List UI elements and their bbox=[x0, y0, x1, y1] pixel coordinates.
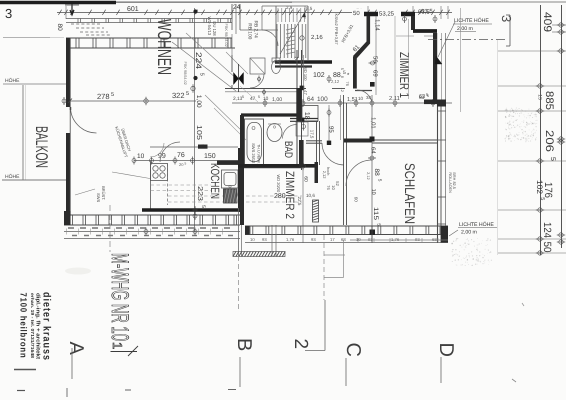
svg-text:7100 heilbronn: 7100 heilbronn bbox=[19, 293, 29, 359]
south wall band lines bbox=[64, 214, 240, 216]
svg-text:LICHTE HÖHE: LICHTE HÖHE bbox=[459, 221, 494, 228]
right chain nodes inner bbox=[538, 84, 542, 88]
balcony bottom edge bbox=[2, 179, 66, 181]
svg-text:76: 76 bbox=[345, 81, 350, 86]
label 50 on wall bbox=[352, 9, 364, 16]
stray mark right middle bbox=[522, 303, 524, 306]
kitchen entry door arc bbox=[160, 142, 180, 162]
terrace east verticals bbox=[271, 225, 273, 256]
svg-text:17: 17 bbox=[330, 237, 335, 242]
svg-text:BRÜST.: BRÜST. bbox=[101, 186, 106, 200]
WOHNEN north wall inner bbox=[66, 47, 235, 49]
dim row y242 bbox=[245, 242, 448, 244]
svg-text:1,00: 1,00 bbox=[272, 97, 282, 103]
tiny node wc 2 bbox=[263, 91, 266, 94]
node x302 y62 bbox=[300, 60, 304, 64]
title block base line bbox=[14, 369, 36, 371]
section bowtie marker bbox=[234, 73, 239, 85]
svg-text:88: 88 bbox=[373, 168, 380, 176]
faint smudge left bbox=[65, 268, 91, 275]
svg-text:WD 100: WD 100 bbox=[303, 66, 308, 81]
svg-text:10,6: 10,6 bbox=[306, 193, 315, 198]
leader diagonal 2 bbox=[186, 33, 238, 80]
grid line below D bbox=[440, 357, 442, 383]
svg-text:BRH 82,5: BRH 82,5 bbox=[452, 172, 456, 188]
zimmer1 south wall thick bbox=[344, 139, 372, 143]
zimmer2 NE door arc bbox=[322, 143, 344, 165]
zimmer1 north wall thick bbox=[364, 12, 415, 16]
svg-text:1,14: 1,14 bbox=[374, 19, 381, 31]
bracket end bbox=[509, 15, 511, 46]
svg-text:24: 24 bbox=[233, 4, 241, 11]
svg-text:RB 100: RB 100 bbox=[246, 23, 252, 39]
filled node x372 y232 bbox=[370, 230, 376, 236]
svg-text:409: 409 bbox=[541, 12, 553, 32]
stair top line bbox=[262, 5, 308, 7]
bath west wall thick bbox=[240, 115, 244, 168]
svg-text:1,00: 1,00 bbox=[195, 95, 202, 108]
svg-text:22,5: 22,5 bbox=[297, 197, 302, 206]
svg-text:12: 12 bbox=[340, 88, 344, 92]
svg-text:FBK 98/64.02: FBK 98/64.02 bbox=[224, 24, 228, 47]
svg-text:10: 10 bbox=[358, 96, 364, 101]
left margin tick line bbox=[3, 37, 50, 39]
kitchen counter edges bbox=[150, 161, 152, 210]
svg-text:5: 5 bbox=[198, 73, 204, 76]
WC west wall bbox=[231, 55, 233, 72]
svg-text:1,76: 1,76 bbox=[391, 237, 400, 242]
svg-text:5: 5 bbox=[539, 197, 545, 200]
svg-text:5: 5 bbox=[340, 68, 344, 70]
south wall band zimmer2 schlafen bbox=[245, 225, 448, 227]
sheet top border line bbox=[0, 1, 566, 3]
svg-text:2,12: 2,12 bbox=[331, 79, 340, 84]
stove box bbox=[151, 164, 168, 181]
staircase treads lower flight bbox=[276, 24, 278, 58]
balcony top edge bbox=[3, 83, 66, 85]
svg-text:20: 20 bbox=[179, 162, 184, 167]
shaft box corridor with dim 18 bbox=[302, 106, 318, 122]
dark seg south west zimmer2 bbox=[245, 226, 250, 235]
svg-text:76: 76 bbox=[326, 185, 331, 190]
dim chain line y101 bbox=[70, 100, 196, 102]
filled node x195 y11 bbox=[193, 9, 197, 13]
plumbing wall dark segment x315 bbox=[315, 162, 319, 183]
svg-text:1,51: 1,51 bbox=[347, 97, 358, 103]
bath east wall dark segment bbox=[296, 88, 301, 122]
svg-text:HÖHE: HÖHE bbox=[5, 77, 20, 84]
ticks on top chain bbox=[58, 10, 61, 15]
svg-text:80: 80 bbox=[56, 23, 63, 31]
vertical dim line x303 zimmer2 bbox=[302, 168, 304, 243]
node corridor x356 bbox=[354, 101, 358, 105]
vertical dim line x372 bbox=[371, 95, 373, 240]
bath north wall thick bbox=[241, 113, 301, 116]
vertical dim x329 with 95 bbox=[328, 105, 330, 143]
svg-text:5: 5 bbox=[111, 92, 114, 98]
bath bottom wall bbox=[244, 167, 302, 169]
corridor wall seg y118-121 bbox=[290, 118, 318, 120]
svg-text:69: 69 bbox=[372, 70, 379, 77]
south wall ticks bbox=[69, 215, 71, 225]
zimmer2 west wall thick bbox=[240, 168, 244, 225]
tiny numbers row2 bbox=[72, 235, 77, 237]
svg-text:601: 601 bbox=[127, 6, 139, 13]
stove burners bbox=[153, 166, 158, 171]
svg-text:A: A bbox=[65, 342, 87, 356]
svg-text:102: 102 bbox=[535, 180, 544, 195]
svg-text:64: 64 bbox=[370, 147, 377, 154]
svg-text:3: 3 bbox=[499, 15, 514, 22]
zimmer1 west wall lower bbox=[353, 57, 357, 89]
svg-text:885: 885 bbox=[543, 91, 555, 110]
svg-text:HÖHE: HÖHE bbox=[5, 173, 20, 180]
svg-text:102: 102 bbox=[313, 72, 325, 79]
leader diagonal 4 bbox=[214, 108, 246, 140]
svg-text:68: 68 bbox=[432, 237, 437, 242]
svg-text:2,00 m: 2,00 m bbox=[457, 26, 473, 32]
node x372 y63 bbox=[371, 61, 375, 65]
svg-text:93: 93 bbox=[262, 237, 267, 242]
filled node x372 y139 bbox=[370, 137, 375, 142]
svg-text:63,5: 63,5 bbox=[418, 9, 430, 16]
WC bowl bbox=[272, 61, 281, 74]
bottom fold marks bbox=[17, 390, 25, 392]
node corridor x433 bbox=[431, 101, 435, 105]
svg-text:47: 47 bbox=[303, 90, 308, 95]
bathtub outer bbox=[245, 119, 264, 165]
nodes dim rows bbox=[144, 230, 148, 234]
node x64 y101 bbox=[62, 99, 66, 103]
stray mark bottom right bbox=[512, 379, 516, 382]
zimmer1 chamfer wall bbox=[353, 42, 370, 59]
svg-text:WD 20/20: WD 20/20 bbox=[276, 174, 281, 193]
schlafen door arc bbox=[346, 160, 372, 186]
zimmer2 north wall thick bbox=[238, 164, 318, 168]
svg-text:KOCHEN: KOCHEN bbox=[208, 163, 222, 199]
svg-text:D: D bbox=[435, 343, 457, 357]
svg-text:5: 5 bbox=[200, 205, 206, 208]
svg-text:M-WHG NR 10: M-WHG NR 10 bbox=[106, 253, 133, 341]
svg-text:erhan. 19 - tel. 07131/71648: erhan. 19 - tel. 07131/71648 bbox=[30, 293, 35, 359]
leader diagonal 3 bbox=[205, 95, 244, 133]
right chain inner vertical x540 bbox=[540, 5, 542, 255]
node corridor x303 bbox=[301, 101, 305, 105]
wash basin bbox=[267, 124, 282, 142]
zimmer1 door sill bbox=[355, 90, 372, 92]
door arc into WC bbox=[250, 74, 264, 88]
bath east wall double bbox=[296, 50, 298, 168]
svg-text:64: 64 bbox=[307, 96, 315, 103]
extension to chain x497 bbox=[497, 40, 499, 255]
west wall inner face bbox=[69, 38, 71, 215]
west exterior wall upper bbox=[66, 38, 70, 107]
leader diagonal 1 bbox=[172, 42, 236, 91]
svg-text:56: 56 bbox=[372, 56, 379, 63]
node corridor x340 bbox=[338, 101, 342, 105]
node x329 y79 bbox=[327, 77, 331, 81]
dashed lines top-left bbox=[71, 23, 100, 25]
fridge dark hatched bbox=[224, 189, 238, 203]
svg-text:SCHLAFEN: SCHLAFEN bbox=[402, 163, 418, 224]
svg-text:WD 54/13: WD 54/13 bbox=[207, 17, 212, 36]
svg-text:TH.U.VERK: TH.U.VERK bbox=[256, 144, 260, 164]
svg-text:278: 278 bbox=[97, 92, 110, 101]
corridor north wall lines bbox=[225, 88, 306, 90]
node x303.5 y126.5 bbox=[302, 125, 306, 129]
svg-text:hoch: hoch bbox=[326, 167, 330, 175]
black arrow on wall bbox=[435, 56, 442, 64]
svg-text:DU 128: DU 128 bbox=[212, 21, 217, 36]
nodes top dim y19 bbox=[403, 17, 407, 21]
svg-text:KSVo2 FFB+3,87: KSVo2 FFB+3,87 bbox=[334, 14, 339, 46]
WOHNEN north wall outer bbox=[66, 37, 232, 39]
right chain outer vertical x561 bbox=[561, 5, 563, 248]
hall east wall x343 bbox=[343, 95, 345, 225]
kitchen nodes bbox=[132, 159, 136, 163]
svg-text:93: 93 bbox=[368, 237, 373, 242]
grid 2 bracket bbox=[324, 300, 326, 351]
staircase treads upper flight bbox=[277, 8, 279, 22]
east wall window ticks bbox=[437, 110, 446, 112]
svg-text:206: 206 bbox=[543, 130, 555, 152]
node x193 y88 bbox=[191, 86, 195, 90]
label 53,25 gap on wall bbox=[378, 10, 401, 17]
small box below shaft bbox=[296, 122, 308, 136]
dashed vertical x238 below bbox=[238, 256, 240, 310]
west exterior wall lower bbox=[66, 133, 70, 215]
svg-text:1,76: 1,76 bbox=[286, 237, 295, 242]
svg-text:50: 50 bbox=[353, 10, 360, 17]
svg-text:WOHNEN: WOHNEN bbox=[153, 19, 174, 75]
dark seg above kitchen bbox=[198, 145, 208, 149]
node corridor x395 bbox=[393, 101, 397, 105]
top dimension chain line bbox=[57, 12, 452, 14]
vertical dim x303 bbox=[303, 55, 305, 103]
kitchen east wall dark bbox=[238, 148, 242, 212]
stair bottom wall thick bbox=[275, 60, 332, 64]
zimmer1 south wall dark seg bbox=[424, 100, 437, 105]
kitchen dim chain y160 bbox=[134, 160, 240, 162]
east wall dark corner bbox=[437, 100, 446, 107]
kitchen entry door arc 2 bbox=[150, 143, 164, 157]
stair node circle bbox=[300, 36, 304, 40]
svg-text:124: 124 bbox=[541, 222, 553, 238]
kitchen top line bbox=[150, 146, 238, 148]
shower square bbox=[250, 58, 265, 74]
svg-text:93: 93 bbox=[311, 237, 316, 242]
svg-text:10: 10 bbox=[263, 96, 269, 102]
extra leader diagonal wc 2 bbox=[240, 86, 258, 102]
svg-text:53,25: 53,25 bbox=[379, 11, 395, 18]
smudge cluster lower bbox=[456, 237, 459, 240]
svg-text:63: 63 bbox=[419, 94, 425, 100]
filled node x372 y84 bbox=[370, 82, 375, 87]
down arrow marker bbox=[70, 4, 74, 15]
svg-text:5: 5 bbox=[186, 91, 189, 97]
extension line x460 bbox=[460, 8, 462, 112]
neighbour door arc bbox=[262, 30, 278, 46]
schlafen east wall lines bbox=[441, 33, 443, 103]
svg-text:100: 100 bbox=[317, 96, 328, 103]
zimmer1 shelf line bbox=[396, 35, 414, 37]
dashed line above M-WHG bbox=[109, 205, 111, 252]
node corridor x372 bbox=[370, 101, 374, 105]
svg-text:5: 5 bbox=[185, 162, 187, 166]
svg-text:52: 52 bbox=[335, 181, 340, 186]
svg-text:88: 88 bbox=[333, 72, 341, 79]
svg-text:BAD: BAD bbox=[282, 141, 294, 158]
svg-text:95: 95 bbox=[328, 126, 335, 133]
svg-text:B: B bbox=[233, 338, 255, 351]
shaft verticals bbox=[231, 4, 233, 30]
balcony left railing bbox=[22, 85, 24, 180]
vert dim line x376 bbox=[375, 16, 377, 95]
node corridor x265 bbox=[263, 101, 267, 105]
svg-text:5: 5 bbox=[258, 95, 260, 99]
svg-text:1: 1 bbox=[110, 342, 125, 349]
sink unit bbox=[222, 170, 239, 188]
terrace west verticals bbox=[238, 208, 240, 256]
node x146 y101 bbox=[144, 99, 148, 103]
zimmer1 step wall right bbox=[411, 16, 415, 30]
svg-text:5: 5 bbox=[242, 95, 244, 99]
svg-text:2,16: 2,16 bbox=[311, 34, 323, 41]
svg-text:FBK 98/64.02: FBK 98/64.02 bbox=[183, 62, 187, 85]
svg-text:BALKON: BALKON bbox=[32, 126, 51, 168]
dim row y231 bbox=[64, 231, 240, 233]
kuechenabluft leader bbox=[112, 172, 150, 179]
vertical line x395 bbox=[394, 16, 396, 103]
corridor south wall west part bbox=[306, 140, 322, 142]
bath east wall dark lower segment bbox=[299, 140, 304, 167]
counter rows dashed bbox=[151, 184, 212, 186]
leader to wall bbox=[438, 22, 455, 57]
node x372 y158 bbox=[370, 156, 374, 160]
svg-text:ZIMMER 2: ZIMMER 2 bbox=[283, 171, 297, 219]
svg-text:10: 10 bbox=[356, 237, 361, 242]
zimmer1 east wall bbox=[433, 33, 437, 103]
grid line below B bbox=[239, 357, 241, 387]
node on zimmer2 north wall bbox=[301, 164, 305, 168]
dash-dot line bbox=[428, 39, 508, 41]
svg-text:8,5: 8,5 bbox=[306, 6, 313, 11]
filled node x302 y88 bbox=[300, 86, 305, 91]
svg-text:223: 223 bbox=[196, 186, 203, 201]
vertical line x340 bbox=[340, 95, 342, 140]
svg-text:3: 3 bbox=[5, 6, 12, 21]
stair walk line bbox=[280, 12, 305, 54]
svg-text:17,5: 17,5 bbox=[310, 130, 315, 139]
wall extension x232 lower bbox=[231, 34, 233, 55]
svg-text:93: 93 bbox=[415, 237, 420, 242]
svg-text:50: 50 bbox=[541, 242, 553, 253]
upper storey wall band bbox=[66, 18, 232, 20]
filled node x195 y75 bbox=[193, 76, 197, 80]
radiator hatch zimmer2 bbox=[313, 200, 319, 222]
terrace line right bbox=[350, 239, 448, 241]
extension verticals on top chain bbox=[65, 6, 67, 19]
grid line below C bbox=[345, 358, 347, 386]
vertical line x408 bbox=[408, 19, 410, 99]
extra leader diagonal wc 1 bbox=[226, 52, 248, 74]
svg-text:2: 2 bbox=[290, 339, 311, 350]
schlafen north wall bbox=[372, 139, 437, 141]
svg-text:SWS 25/12: SWS 25/12 bbox=[251, 143, 256, 164]
svg-text:10: 10 bbox=[250, 237, 255, 242]
dark corner south east bbox=[441, 226, 448, 243]
svg-text:RB 2,74: RB 2,74 bbox=[252, 21, 258, 39]
svg-text:1,01: 1,01 bbox=[370, 117, 377, 129]
dim row y238 bbox=[64, 238, 240, 240]
filled node x302 y120 bbox=[300, 118, 305, 123]
svg-text:76: 76 bbox=[177, 152, 185, 159]
svg-text:322: 322 bbox=[172, 91, 185, 100]
svg-text:2,00 m: 2,00 m bbox=[461, 230, 477, 236]
svg-text:dieter krauss: dieter krauss bbox=[41, 292, 53, 361]
neighbour partitions bbox=[240, 29, 278, 31]
svg-text:ROLLADEN: ROLLADEN bbox=[448, 172, 452, 193]
bath door arc bbox=[283, 125, 297, 139]
staircase side walls bbox=[275, 6, 277, 60]
smudge cluster right bbox=[514, 112, 517, 115]
svg-text:224: 224 bbox=[194, 52, 203, 70]
bathtub inner bbox=[247, 123, 262, 162]
terrace rect below bbox=[324, 254, 345, 256]
window ticks north wall bbox=[75, 38, 77, 48]
svg-text:10: 10 bbox=[137, 153, 145, 160]
tiny numbers row1 bbox=[68, 227, 74, 229]
zimmer1 upper-right wall bbox=[413, 29, 437, 33]
zimmer1 door arc bbox=[357, 90, 372, 104]
leader bottom bbox=[449, 230, 458, 236]
svg-text:105: 105 bbox=[195, 125, 202, 140]
right chain connectors bbox=[552, 24, 566, 26]
terrace hatch band bbox=[233, 252, 285, 257]
plumbing wall double x316-319 bbox=[316, 121, 318, 165]
right chain nodes outer bbox=[559, 23, 563, 27]
corridor dim chain y103 bbox=[232, 102, 452, 104]
zimmer1 west wall upper bbox=[367, 16, 371, 44]
vertical dim line x195 bbox=[194, 8, 196, 232]
south band ticks bbox=[249, 226, 251, 235]
svg-text:115: 115 bbox=[372, 207, 379, 220]
svg-text:10: 10 bbox=[331, 185, 336, 190]
tiny node wc 1 bbox=[258, 78, 261, 81]
balcony door arc bbox=[71, 107, 97, 133]
grid line below A bbox=[71, 348, 73, 379]
svg-text:LICHTE HÖHE: LICHTE HÖHE bbox=[454, 17, 489, 24]
svg-text:10: 10 bbox=[370, 189, 376, 195]
svg-text:ZIMMER 1: ZIMMER 1 bbox=[397, 52, 412, 98]
svg-text:13: 13 bbox=[536, 94, 542, 100]
svg-text:SWS: SWS bbox=[96, 193, 101, 202]
dark seg sink-bath corner bbox=[217, 161, 240, 165]
svg-text:150: 150 bbox=[204, 153, 216, 160]
south wall thick kitchen bbox=[142, 208, 238, 212]
svg-text:8: 8 bbox=[340, 76, 344, 78]
svg-text:2,12: 2,12 bbox=[366, 172, 370, 179]
title underline and slash bbox=[111, 351, 138, 353]
sw corner dark bbox=[64, 211, 71, 225]
svg-text:C: C bbox=[342, 343, 364, 357]
svg-text:60: 60 bbox=[354, 197, 359, 203]
stair annotation smudge bbox=[286, 28, 295, 30]
leader to sws bbox=[75, 189, 95, 195]
svg-text:5: 5 bbox=[549, 157, 556, 161]
